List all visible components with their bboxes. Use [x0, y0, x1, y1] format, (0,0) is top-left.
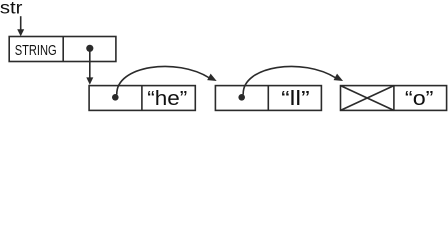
svg-text:“ll”: “ll”	[281, 88, 310, 110]
svg-text:“o”: “o”	[405, 88, 434, 110]
svg-text:STRING: STRING	[15, 43, 57, 59]
svg-text:“he”: “he”	[147, 88, 187, 110]
svg-text:str: str	[0, 0, 23, 17]
